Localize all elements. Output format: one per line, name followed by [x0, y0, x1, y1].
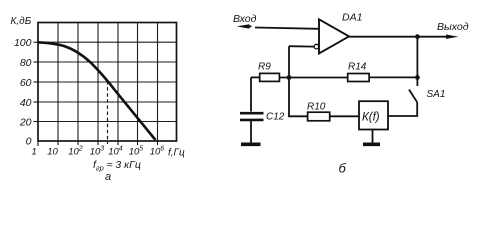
- wire: R10 right lead to K(f) box: [330, 115, 359, 117]
- resistor R14: [348, 74, 369, 82]
- svg-text:fгр ≈ 3 кГц: fгр ≈ 3 кГц: [93, 159, 141, 173]
- svg-text:R9: R9: [258, 62, 271, 73]
- ground bar under C12: [241, 143, 261, 147]
- svg-text:SA1: SA1: [427, 89, 446, 100]
- dashed line f_gr: [107, 81, 109, 144]
- ground bar under K(f): [363, 143, 380, 147]
- svg-text:К(f): К(f): [362, 112, 380, 124]
- wire: K(f) ground lead: [372, 130, 374, 143]
- svg-text:Выход: Выход: [437, 21, 469, 33]
- wire: R9 left lead: [251, 76, 260, 78]
- wire: K(f) output to switch: [388, 102, 417, 116]
- wire: vertical from inverting node down to R9 node: [288, 46, 290, 77]
- svg-text:б: б: [339, 161, 347, 176]
- output arrowhead: [446, 35, 459, 39]
- svg-text:60: 60: [20, 77, 32, 89]
- resistor R9: [260, 73, 280, 81]
- svg-text:10: 10: [47, 147, 58, 158]
- capacitor C12 top plate: [240, 112, 264, 115]
- node: feedback junction dot: [415, 75, 420, 80]
- node: output junction dot: [415, 34, 420, 39]
- svg-text:R10: R10: [307, 102, 326, 113]
- x labels: [32, 146, 165, 158]
- svg-text:а: а: [105, 171, 111, 183]
- svg-text:100: 100: [14, 37, 32, 49]
- wire: node down to R10 row: [289, 78, 308, 117]
- svg-text:Вход: Вход: [233, 13, 257, 25]
- capacitor C12 bottom plate: [240, 119, 264, 122]
- input arrow: [237, 24, 250, 28]
- wire: R14 right lead to feedback node: [369, 76, 417, 78]
- svg-text:1: 1: [32, 147, 37, 158]
- op-amp DA1 triangle: [319, 19, 349, 53]
- wire: op-amp output: [349, 36, 449, 38]
- svg-text:102: 102: [68, 146, 83, 158]
- svg-text:DA1: DA1: [342, 12, 362, 24]
- y-axis ticks: [34, 42, 39, 121]
- resistor R10: [308, 112, 330, 121]
- axis frame: [38, 23, 177, 142]
- svg-text:106: 106: [150, 146, 165, 158]
- wire: C12 top lead from R9 left: [250, 77, 252, 111]
- svg-text:40: 40: [20, 97, 32, 109]
- svg-text:С12: С12: [266, 112, 285, 123]
- switch SA1 fixed contact stub: [416, 77, 418, 86]
- y labels: [14, 37, 32, 148]
- svg-text:80: 80: [20, 57, 32, 69]
- svg-text:f,Гц: f,Гц: [168, 148, 185, 159]
- inverting input bubble: [314, 44, 319, 49]
- wire: R9 right lead to node: [279, 77, 289, 79]
- wire: input to op-amp + input: [255, 28, 319, 29]
- wire: inverting input: [289, 45, 314, 47]
- block K(f): [359, 101, 388, 129]
- svg-text:R14: R14: [348, 62, 367, 73]
- wire: output node down to feedback node: [416, 37, 418, 78]
- response curve: [38, 42, 156, 140]
- x-axis ticks: [38, 141, 158, 146]
- switch SA1 blade: [409, 90, 417, 103]
- svg-text:20: 20: [19, 116, 32, 128]
- wire: C12 bottom lead: [250, 121, 252, 143]
- node: R9 junction dot: [287, 75, 292, 80]
- svg-text:К,дБ: К,дБ: [11, 16, 32, 27]
- grid vertical lines: [58, 23, 158, 142]
- svg-text:104: 104: [108, 146, 123, 158]
- grid horizontal lines: [38, 42, 177, 121]
- wire: node to R14 left lead: [289, 77, 348, 79]
- svg-text:103: 103: [90, 146, 105, 158]
- svg-text:105: 105: [129, 146, 144, 158]
